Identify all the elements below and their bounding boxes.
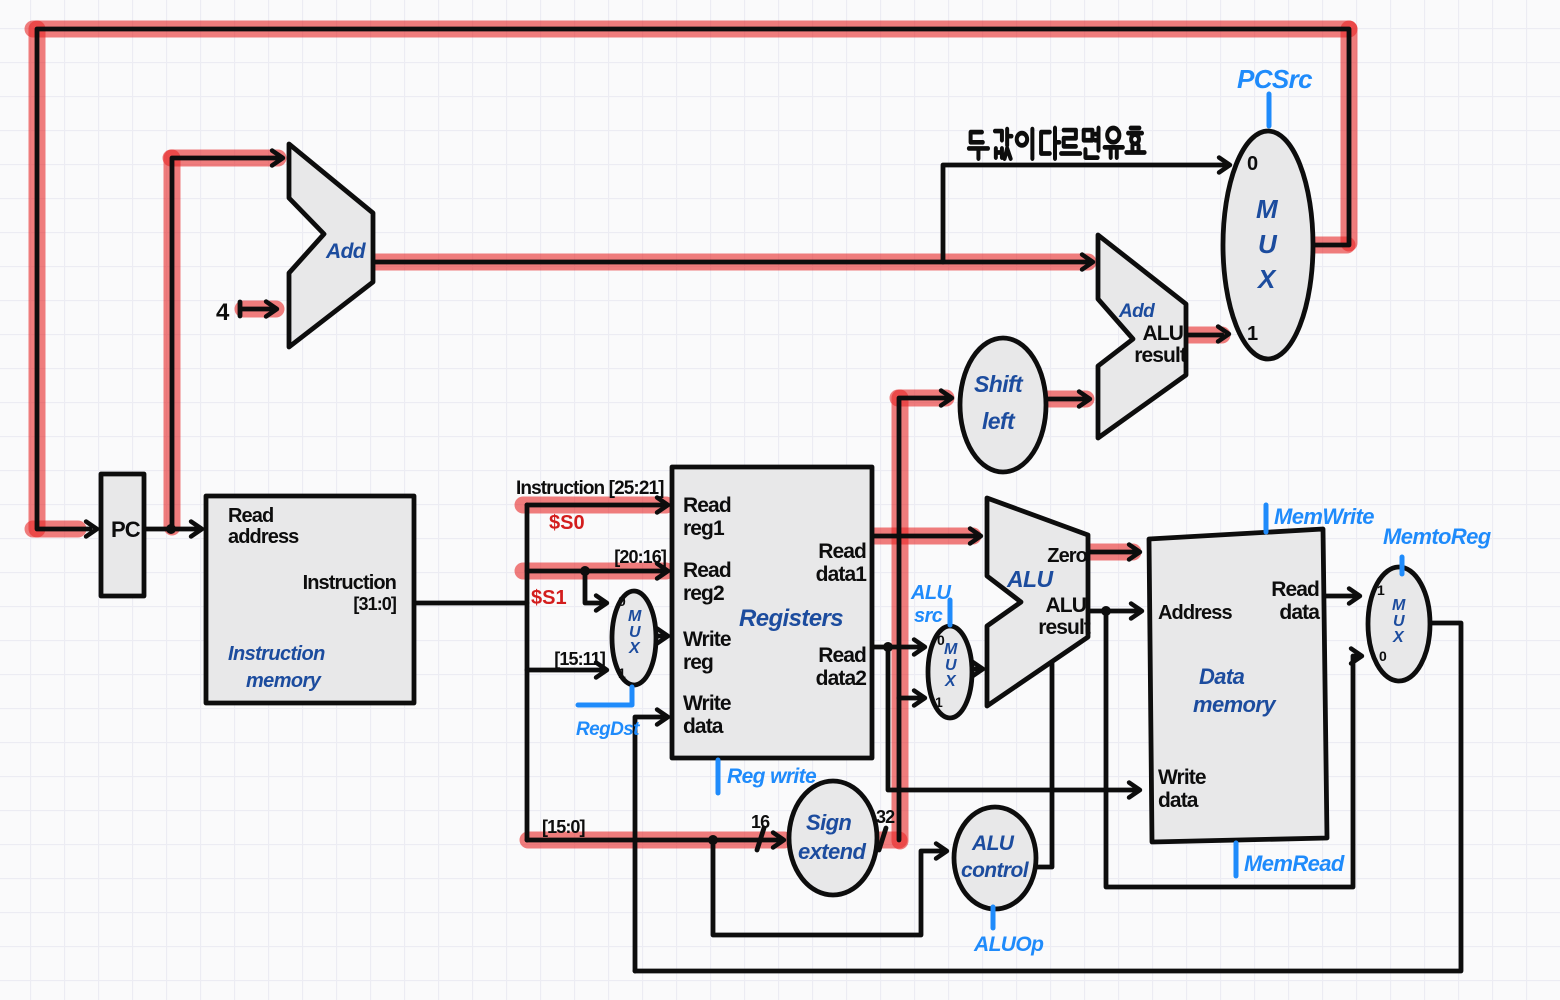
wire highlight: zero out (1089, 544, 1133, 561)
svg-text:1: 1 (1247, 323, 1258, 345)
wire: regdst mux out to write reg (657, 634, 662, 639)
svg-text:ALU: ALU (1046, 594, 1086, 617)
arrow into regdst mux 1 (596, 663, 607, 678)
MemtoReg mux oval (1368, 567, 1430, 681)
svg-text:data: data (1158, 789, 1199, 812)
MemWrite tick (1264, 505, 1269, 532)
arrow into ALU top (970, 529, 981, 544)
MemtoReg tick (1400, 557, 1405, 574)
svg-text:result: result (1134, 344, 1187, 367)
korean note: 두 값이 다르면 유효 (969, 128, 1145, 159)
PCSrc tick (1267, 94, 1272, 126)
svg-text:[20:16]: [20:16] (614, 547, 666, 567)
svg-text:32: 32 (876, 807, 895, 827)
svg-text:Read: Read (228, 505, 273, 527)
wire: zero out (1088, 550, 1134, 555)
adder Add1 (289, 144, 373, 347)
ALUSrc mux oval (928, 626, 972, 718)
arrow into write reg (657, 629, 668, 644)
svg-text:PCSrc: PCSrc (1237, 64, 1313, 94)
wire: read data2 to alusrc mux 0 (872, 645, 919, 650)
svg-text:Sign: Sign (806, 810, 851, 835)
wire highlight: instr 20:16 (523, 563, 666, 580)
svg-text:Write: Write (1158, 766, 1206, 789)
PCSrc mux oval (1223, 131, 1313, 359)
다 (1041, 128, 1059, 159)
wire highlight: PC+4 long (372, 254, 1088, 271)
svg-text:Address: Address (1158, 602, 1233, 624)
svg-text:left: left (982, 408, 1016, 434)
MemRead tick (1234, 843, 1239, 876)
arrow into instruction memory (191, 522, 202, 537)
svg-text:M: M (628, 608, 642, 625)
svg-text:M: M (1392, 597, 1406, 614)
wire: PC+4 branch to PCSrc mux 0 (943, 165, 1224, 262)
wire: signext tap to alusrc mux 1 (899, 696, 919, 701)
sign extend oval (789, 781, 877, 895)
이 (1017, 129, 1033, 159)
arrow into alusrc mux 1 (914, 691, 925, 706)
wire: 15:0 tap to ALU control (713, 840, 941, 935)
wire highlight: mux out up (1341, 29, 1358, 243)
svg-text:Add: Add (325, 240, 367, 263)
wire: instr 15:11 to regdst mux 1 (527, 668, 601, 673)
arrow zero out (1129, 545, 1140, 560)
svg-text:Zero: Zero (1047, 545, 1087, 567)
wire highlight: into Add1 (171, 150, 278, 167)
arrow const4 into Add1 (266, 302, 277, 317)
wire: alusrc mux out to ALU (972, 667, 977, 672)
wire: 20:16 tap to regdst mux 0 (585, 571, 601, 603)
svg-text:X: X (628, 640, 641, 657)
node: PC tap (166, 524, 176, 534)
svg-text:result: result (1038, 616, 1091, 639)
wire: 32-bit slash (879, 828, 886, 850)
arrow into write data (657, 710, 668, 725)
shift left oval (960, 338, 1046, 472)
arrow PC+4 into Add2 (1082, 255, 1093, 270)
node: 20:16 tap (580, 566, 590, 576)
wire highlight: shift left in (898, 390, 946, 407)
svg-text:control: control (961, 859, 1030, 882)
wire highlight: add2 out (1186, 327, 1222, 344)
RegDst mux oval (612, 591, 656, 685)
svg-text:U: U (1393, 613, 1405, 630)
svg-text:[15:11]: [15:11] (554, 649, 605, 669)
svg-text:address: address (228, 526, 299, 548)
arrow into shift left (941, 391, 952, 406)
svg-text:0: 0 (1247, 153, 1258, 175)
wire highlight: instr 15:0 (528, 832, 784, 849)
wire highlight: read data1 (868, 528, 973, 545)
svg-text:0: 0 (1379, 648, 1387, 664)
svg-text:$S1: $S1 (531, 587, 567, 609)
svg-text:Read: Read (818, 540, 866, 563)
svg-text:U: U (629, 624, 641, 641)
wire highlight: top feedback (33, 21, 1349, 38)
wire highlight: into PC (33, 521, 78, 538)
arrow into write data mem (1129, 783, 1140, 798)
PC box (101, 474, 144, 596)
wire: instr 25:21 to read reg1 (527, 503, 662, 508)
wire: PC tap up to Add1 (172, 158, 277, 529)
RegDst wire (578, 687, 632, 705)
svg-text:[15:0]: [15:0] (542, 817, 585, 837)
wire highlight: signext vertical (892, 398, 909, 841)
arrow alusrc out into ALU (972, 662, 983, 677)
svg-text:Shift: Shift (974, 371, 1024, 397)
wire: write-back up into write data (635, 717, 662, 971)
arrow into ALU control (936, 844, 947, 859)
르 (1061, 130, 1080, 153)
svg-text:ALU: ALU (910, 582, 951, 604)
instruction memory box (206, 496, 414, 703)
svg-text:memory: memory (1193, 692, 1277, 717)
Reg write tick (716, 760, 721, 793)
ALU (987, 498, 1088, 706)
wire: ALU result to address (1088, 609, 1136, 614)
arrow into address (1131, 604, 1142, 619)
svg-text:reg: reg (683, 651, 713, 674)
svg-text:X: X (1256, 264, 1277, 294)
wire: ALU result bypass to memtoreg mux 0 (1106, 611, 1356, 887)
svg-text:extend: extend (798, 839, 866, 864)
두 (969, 132, 988, 159)
wire: Add2 out to PCSrc mux 1 (1186, 333, 1222, 338)
arrow into PCSrc mux 0 (1219, 158, 1230, 173)
svg-text:U: U (1258, 229, 1278, 259)
wire highlight: instr 25:21 (523, 497, 666, 514)
wire: instr 15:0 to sign extend (527, 838, 779, 843)
효 (1126, 128, 1144, 152)
svg-text:Reg write: Reg write (727, 765, 817, 788)
arrow into Add1 top (272, 151, 283, 166)
data memory box (1149, 529, 1327, 842)
adder Add2 (1098, 235, 1186, 438)
svg-text:Read: Read (1271, 578, 1319, 601)
svg-text:1: 1 (935, 694, 943, 710)
ALU control oval (954, 807, 1036, 909)
svg-text:ALU: ALU (971, 832, 1015, 855)
arrow into read reg1 (657, 498, 668, 513)
svg-text:0: 0 (618, 593, 626, 609)
registers box (672, 467, 872, 758)
arrow into memtoreg mux 1 (1349, 589, 1360, 604)
wire: PCSrc mux output loop to PC (37, 29, 1349, 529)
node: regdst write data corner (634, 716, 636, 718)
svg-text:MemtoReg: MemtoReg (1383, 524, 1492, 549)
svg-text:reg1: reg1 (683, 517, 725, 540)
wire: ALU control out to ALU (1030, 660, 1052, 867)
wire: read data2 down to write data mem (888, 647, 1134, 790)
arrow into read reg2 (657, 564, 668, 579)
svg-text:ALU: ALU (1006, 566, 1054, 592)
svg-text:1: 1 (618, 665, 626, 681)
svg-text:RegDst: RegDst (576, 719, 640, 740)
svg-text:16: 16 (751, 812, 770, 832)
wire highlight: const 4 (243, 301, 276, 318)
wire highlight: mux out right (1312, 237, 1347, 254)
svg-text:data: data (683, 715, 724, 738)
svg-text:ALU: ALU (1143, 322, 1183, 345)
svg-text:Read: Read (683, 494, 731, 517)
svg-text:Instruction: Instruction (303, 572, 396, 594)
wire: read data to memtoreg mux 1 (1325, 594, 1354, 599)
wire: shift left out to Add2 (1044, 397, 1084, 402)
svg-text:PC: PC (111, 517, 141, 542)
svg-text:Registers: Registers (739, 605, 843, 632)
arrow shift out into Add2 (1079, 392, 1090, 407)
svg-text:data1: data1 (816, 563, 868, 586)
svg-text:Write: Write (683, 628, 731, 651)
svg-text:src: src (914, 605, 943, 627)
wire: const 4 into Add1 (240, 302, 271, 316)
wire highlight: shift left out (1044, 391, 1086, 408)
면 (1084, 128, 1099, 158)
svg-text:ALUOp: ALUOp (973, 933, 1044, 956)
svg-text:X: X (944, 673, 957, 690)
유 (1105, 128, 1123, 158)
svg-text:data: data (1279, 601, 1320, 624)
wire: Add1 out PC+4 to Add2 (373, 260, 1087, 265)
svg-text:0: 0 (937, 632, 945, 648)
svg-text:Write: Write (683, 692, 731, 715)
wire: memtoreg mux out write-back loop (635, 623, 1461, 971)
svg-text:reg2: reg2 (683, 582, 724, 605)
arrow Add2 out into mux1 (1218, 327, 1229, 342)
wire highlight: PC tap vertical (164, 158, 181, 527)
svg-text:Instruction [25:21]: Instruction [25:21] (516, 478, 664, 499)
ALU src tick (948, 600, 953, 625)
svg-text:M: M (944, 641, 958, 658)
arrow into alusrc mux 0 (914, 640, 925, 655)
svg-text:[31:0]: [31:0] (353, 594, 396, 614)
svg-text:MemRead: MemRead (1244, 851, 1345, 876)
arrow into memtoreg mux 0 (1351, 649, 1362, 664)
wire: 16-bit slash (757, 828, 764, 850)
값 (995, 129, 1012, 159)
svg-text:$S0: $S0 (549, 512, 585, 534)
svg-text:4: 4 (216, 299, 230, 326)
svg-text:1: 1 (1377, 582, 1385, 598)
node: read data2 tap (883, 642, 893, 652)
wire: PC to instruction memory (144, 527, 197, 532)
ALUOp tick (991, 907, 996, 928)
svg-text:MemWrite: MemWrite (1274, 504, 1374, 529)
node: 15:0 tap (708, 835, 718, 845)
svg-text:data2: data2 (816, 667, 867, 690)
wire: read data1 to ALU (872, 534, 975, 539)
svg-text:Read: Read (818, 644, 866, 667)
wire highlight: left vertical (29, 29, 46, 529)
arrow into regdst mux 0 (596, 596, 607, 611)
wire highlight: signext out (877, 832, 899, 849)
svg-text:Add: Add (1118, 301, 1155, 322)
svg-text:M: M (1256, 194, 1279, 224)
wire: instruction bus out (414, 601, 527, 606)
node: ALU result tap (1101, 606, 1111, 616)
svg-text:memory: memory (246, 670, 322, 692)
wire: sign extend up to shift left (899, 398, 946, 840)
svg-text:Instruction: Instruction (228, 643, 325, 665)
arrow into PC (86, 522, 97, 537)
wire: instr 20:16 to read reg2 (527, 569, 662, 574)
svg-text:Read: Read (683, 559, 731, 582)
wire: instruction vertical bus (525, 505, 530, 840)
arrow into sign extend (773, 833, 784, 848)
svg-text:X: X (1392, 629, 1405, 646)
svg-text:Data: Data (1199, 664, 1245, 689)
svg-text:U: U (945, 657, 957, 674)
